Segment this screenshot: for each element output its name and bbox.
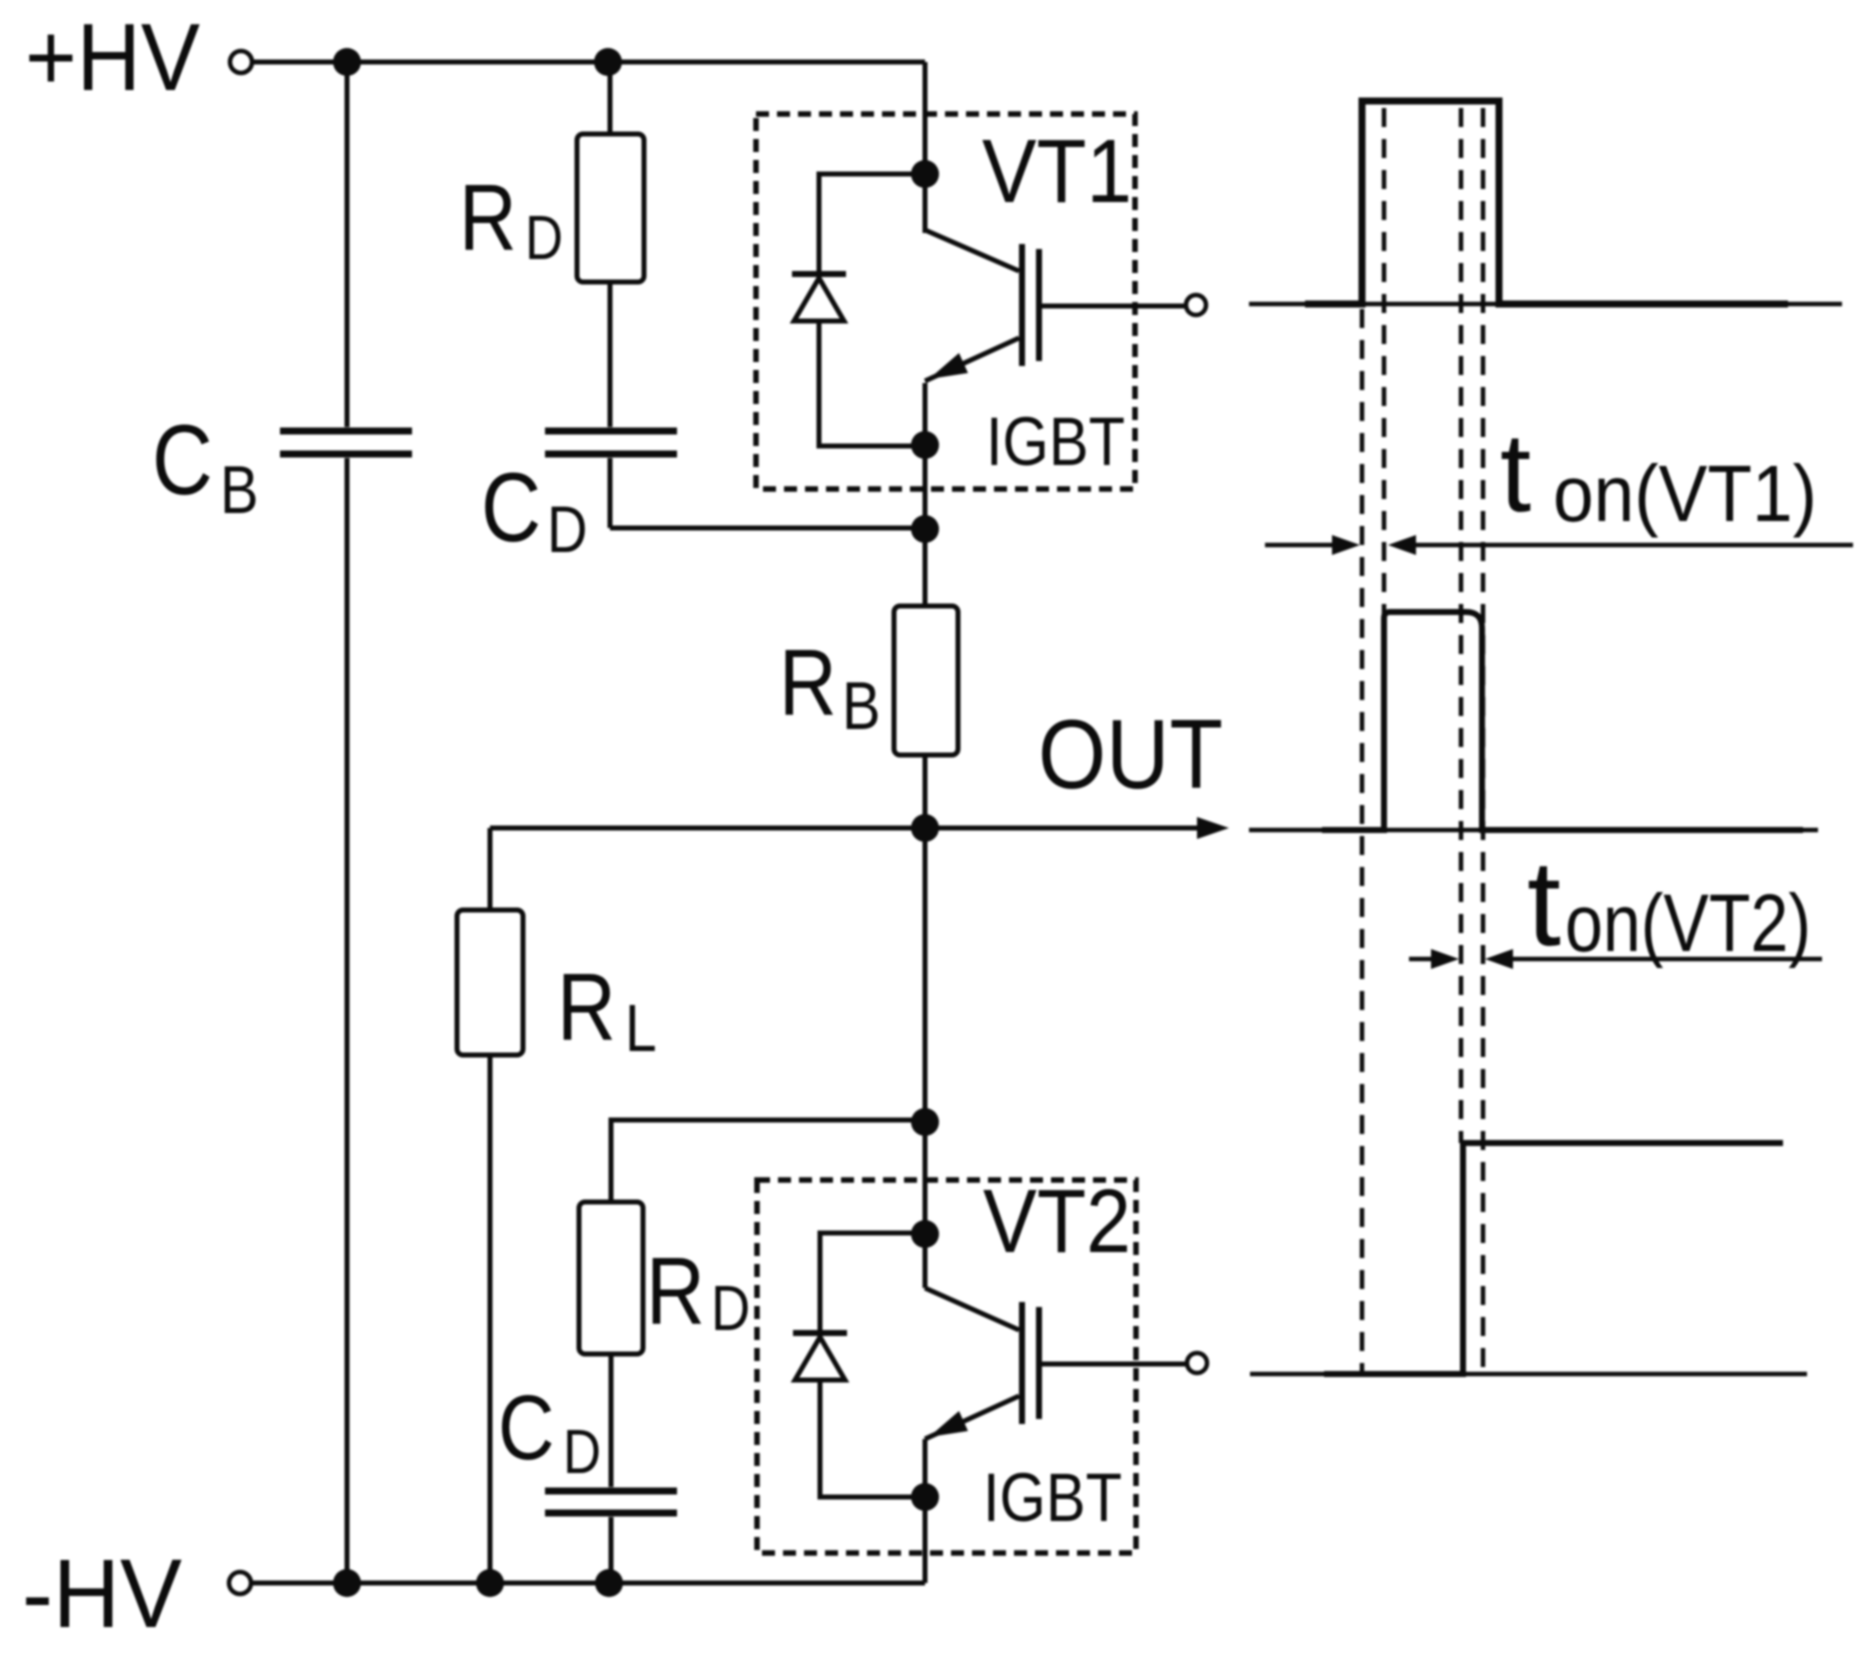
svg-text:VT1: VT1 [982, 122, 1132, 222]
svg-text:C: C [152, 406, 213, 516]
svg-text:L: L [625, 992, 657, 1066]
svg-text:D: D [525, 204, 563, 273]
svg-text:D: D [563, 1418, 601, 1487]
svg-text:IGBT: IGBT [986, 403, 1125, 480]
svg-text:R: R [459, 166, 517, 271]
svg-text:B: B [842, 669, 881, 744]
svg-text:C: C [481, 454, 541, 563]
svg-text:C: C [498, 1377, 554, 1479]
svg-text:t: t [1500, 410, 1531, 535]
svg-text:on(VT2): on(VT2) [1565, 878, 1811, 969]
svg-text:D: D [547, 493, 588, 566]
svg-text:IGBT: IGBT [983, 1459, 1122, 1536]
svg-text:OUT: OUT [1038, 699, 1223, 809]
svg-text:R: R [646, 1237, 705, 1345]
svg-text:t: t [1527, 835, 1561, 971]
svg-text:R: R [557, 953, 616, 1061]
svg-text:-HV: -HV [22, 1539, 182, 1648]
svg-text:B: B [220, 453, 259, 528]
svg-text:R: R [779, 631, 837, 736]
svg-text:on(VT1): on(VT1) [1553, 449, 1817, 538]
svg-text:D: D [711, 1272, 750, 1344]
svg-text:+HV: +HV [25, 4, 200, 111]
svg-text:VT2: VT2 [983, 1172, 1131, 1272]
